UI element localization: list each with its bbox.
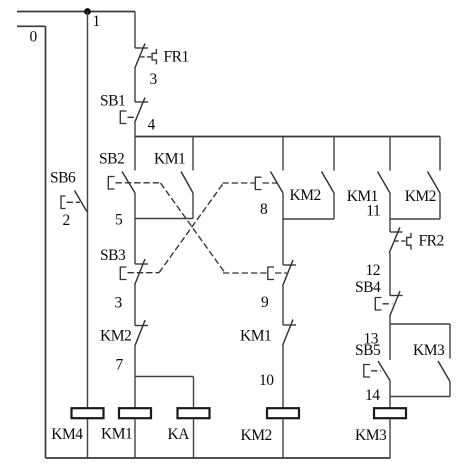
wire: KM1 interlock to KM2 coil: [282, 346, 284, 408]
svg-text:9: 9: [261, 294, 269, 311]
wire: KM3 coil to bottom rail: [389, 418, 391, 458]
wire: node 8 horizontal to KM2 aux: [283, 218, 334, 220]
svg-text:3: 3: [115, 295, 123, 312]
svg-text:SB2: SB2: [99, 150, 124, 167]
svg-text:7: 7: [116, 357, 124, 374]
pushbutton SB1 (NC stop): [120, 98, 148, 124]
svg-text:SB4: SB4: [355, 279, 381, 296]
wire: KM1 aux bottom to node 5: [192, 193, 194, 219]
wire: FR1 to SB1: [134, 69, 136, 102]
contact KM2 (NO) right: [428, 172, 441, 194]
coil KM3: [374, 408, 406, 418]
wire: contact 9 to KM1 interlock: [282, 286, 284, 325]
dashed horizontal into contact 8 actuator: [222, 182, 254, 184]
wire: bus down to KM2 interlock right: [439, 137, 441, 171]
wire: KM2 right bottom to node 11: [439, 193, 441, 219]
svg-text:KM2: KM2: [290, 187, 321, 204]
svg-text:KM3: KM3: [355, 427, 387, 444]
wire: KA coil to bottom rail: [193, 418, 195, 458]
svg-text:KM4: KM4: [51, 426, 83, 443]
contact 9 (NC, linked to SB2): [268, 260, 296, 286]
wire: node 7 branch to KA: [135, 376, 194, 378]
svg-text:8: 8: [260, 201, 268, 218]
svg-text:KM2: KM2: [405, 188, 436, 205]
wire: FR2 to SB4: [389, 253, 391, 296]
svg-text:SB6: SB6: [50, 170, 76, 187]
contact KM2 (NO self-hold): [322, 172, 335, 194]
dashed diagonal SB2 linkage to contact 9: [161, 183, 225, 272]
wire: bus down to KM1 contact (node 11 branch): [389, 137, 391, 171]
wire: top supply line (node 1): [17, 11, 135, 13]
svg-text:KA: KA: [168, 426, 191, 443]
wire: bottom rail: [46, 457, 391, 459]
coil KA: [178, 408, 210, 418]
svg-text:0: 0: [30, 29, 38, 46]
pushbutton contact 8 (NO, linked to SB3): [255, 172, 283, 194]
wire: node 13 horizontal to KM3 aux: [390, 323, 450, 325]
wire: node 14 horizontal to KM3 aux: [390, 396, 450, 398]
wire: KA branch down: [193, 377, 195, 408]
wire: bus down to KM1 aux: [192, 137, 194, 171]
svg-text:KM2: KM2: [241, 427, 272, 444]
svg-text:14: 14: [365, 387, 380, 404]
wire: drop from line 1 to FR1: [134, 12, 136, 49]
dashed linkage from SB3: [128, 272, 160, 274]
wire: bus down to contact 8: [282, 137, 284, 171]
wire: KM1 contact down to FR2: [389, 193, 391, 232]
wire: node 14 to KM3 coil: [389, 397, 391, 408]
svg-text:KM3: KM3: [413, 342, 445, 359]
thermal overload contact FR2 (NC): [389, 227, 411, 253]
wire: contact 8 down through node 8 to contact 9: [282, 193, 284, 265]
pushbutton SB6: [61, 191, 87, 212]
contact KM2 (NC interlock): [135, 320, 148, 346]
svg-text:11: 11: [366, 202, 380, 219]
svg-text:3: 3: [150, 71, 158, 88]
wire: horizontal bus (node 4): [135, 136, 440, 138]
svg-text:KM1: KM1: [154, 150, 185, 167]
svg-text:4: 4: [148, 117, 156, 134]
wire: left rail 0: [45, 26, 47, 458]
svg-text:SB5: SB5: [355, 342, 381, 359]
pushbutton SB5 (NO start): [364, 361, 390, 381]
wire: rail 1 from junction down to KM4 coil: [87, 12, 89, 408]
wire: KM2 coil to bottom rail: [282, 418, 284, 458]
wire: KM2 interlock to KM1 coil: [134, 346, 136, 408]
svg-text:2: 2: [63, 212, 70, 229]
wire: bus down to SB2: [134, 137, 136, 171]
wire: KM3 aux drop from node 13: [449, 324, 451, 359]
dashed diagonal SB3 linkage to contact 8: [159, 184, 223, 273]
wire: bus down to KM2 aux: [333, 137, 335, 171]
contact KM1 (NO self-hold): [181, 172, 193, 194]
svg-text:12: 12: [366, 262, 381, 279]
wire: KM3 aux bottom to node 14: [449, 382, 451, 397]
pushbutton SB2 (NO start): [108, 172, 135, 194]
svg-text:1: 1: [93, 13, 100, 30]
svg-text:SB3: SB3: [100, 247, 126, 264]
wire: SB1 to bus: [134, 123, 136, 137]
dashed linkage from SB2: [116, 182, 161, 184]
svg-text:KM2: KM2: [100, 328, 131, 345]
svg-text:KM1: KM1: [101, 426, 132, 443]
wire: node 5 horizontal (SB2 bottom to KM1 aux bottom): [135, 218, 193, 220]
pushbutton SB3 (NC): [120, 259, 148, 285]
wire: lower supply line (node 0): [17, 25, 46, 27]
coil KM1: [119, 408, 151, 418]
dashed horizontal into contact 9 actuator: [223, 272, 267, 274]
thermal overload contact FR1 (NC): [135, 44, 157, 69]
contact KM1 (NO): [378, 172, 391, 194]
wire: SB3 to KM2 interlock: [134, 285, 136, 326]
svg-text:FR1: FR1: [164, 49, 189, 66]
contact KM3 (NO self-hold): [438, 361, 450, 382]
wire: SB4 to SB5: [389, 317, 391, 361]
pushbutton SB4 (NC): [375, 291, 402, 317]
svg-text:SB1: SB1: [100, 93, 125, 110]
contact KM1 (NC interlock): [283, 320, 296, 346]
svg-text:FR2: FR2: [419, 233, 444, 250]
svg-text:10: 10: [259, 372, 274, 389]
wire: rail 1 below KM4 coil: [87, 418, 89, 458]
svg-text:KM1: KM1: [240, 328, 271, 345]
wire: node 11 horizontal: [390, 218, 440, 220]
wire: SB2 to SB3: [134, 193, 136, 264]
coil KM2: [267, 408, 299, 418]
coil KM4: [72, 408, 104, 418]
wire: KM2 aux bottom to node 8: [333, 193, 335, 219]
wire: KM1 coil to bottom rail: [134, 418, 136, 458]
svg-text:5: 5: [115, 212, 123, 229]
junction dot node 1: [84, 8, 91, 15]
wire: SB5 to node 14: [389, 381, 391, 397]
